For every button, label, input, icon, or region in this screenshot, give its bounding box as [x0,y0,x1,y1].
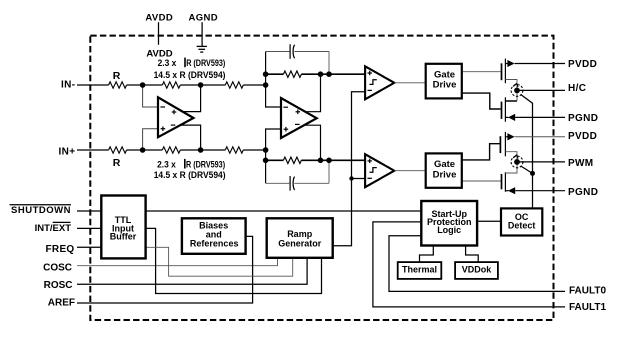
wire PWM sensor to OC line [521,166,533,173]
resistor 2.3xR feedback upper [162,82,180,88]
svg-text:AVDD: AVDD [145,13,173,24]
svg-text:PVDD: PVDD [568,131,597,142]
svg-text:PGND: PGND [568,187,598,198]
wire INT/EXT input [77,227,101,229]
wire INT/EXT routed to ramp generator [146,228,321,293]
capacitor C1 (upper) [290,44,295,59]
wire H/C sensor to OC detect [521,95,533,209]
wire PWM pin [517,161,565,163]
wire gate drive 2 lower gate lead [462,180,501,182]
resistor R (IN-) [109,82,127,88]
diode/arrow PVDD lower [505,133,514,140]
block OC Detect [501,208,542,235]
wire H/C pin [517,89,565,91]
wire amp1 non-inverting input lead [143,129,158,150]
svg-text:14.5 x R (DRV594): 14.5 x R (DRV594) [154,170,226,181]
svg-text:Detect: Detect [508,220,536,230]
wire amp1 inverting input lead [143,85,158,107]
wire gate drive 1 lower gate lead [462,93,501,109]
wire PGND upper pin [515,116,565,118]
resistor interstage upper [225,82,243,88]
block Thermal [398,262,442,279]
wire amp1 upper output to rail [182,85,201,112]
wire Q1 source to sense node [505,80,517,91]
wire ROSC net [77,258,307,285]
wire PVDD lower pin [515,136,565,138]
svg-text:VDDok: VDDok [462,265,492,275]
svg-text:IN-: IN- [61,80,76,91]
pin label SHUTDOWN (active low) [10,205,72,216]
comparator U4 (lower, with hysteresis) [365,154,394,187]
op-amp U2 polarity signs [283,107,300,131]
comparator U4 signs and hysteresis glyph [368,159,377,179]
transistor Q3 (high-side, PWM) [500,132,505,156]
svg-text:PGND: PGND [568,113,598,124]
wire PVDD upper pin [515,63,565,65]
capacitor C2 (lower) [290,176,295,191]
svg-text:FAULT1: FAULT1 [569,302,606,313]
svg-text:FAULT0: FAULT0 [569,285,606,296]
wire gate drive 1 upper gate lead [462,71,501,73]
resistor interstage lower [225,147,243,153]
wire Q2 drain to sense node [505,100,517,102]
wire gate drive 2 upper gate lead [462,144,500,160]
op-amp U1 input/output polarity signs [160,107,176,131]
wire Start-Up to Thermal [420,246,434,263]
wire amp2 upper output to rail [305,74,321,112]
svg-text:R (DRV593): R (DRV593) [186,58,225,69]
junction dots stage1/stage2 rails [140,71,332,163]
svg-text:AGND: AGND [189,13,219,24]
node PWM (sense dot) [514,159,520,165]
wire AVDD pin [158,22,160,45]
wire Start-Up to FAULT0 [389,236,565,292]
svg-text:Logic: Logic [437,225,461,235]
artifact bar upper [184,58,186,68]
svg-text:Drive: Drive [433,80,457,91]
svg-text:Ramp: Ramp [287,229,313,239]
current sensor (PWM) dashed circle [511,156,523,168]
wire AGND pin [201,22,203,46]
wire Start-Up to FAULT1 [373,222,565,307]
svg-text:INT/EXT: INT/EXT [35,223,72,234]
wire COSC net [77,258,278,266]
wire comparator1 output [394,82,426,84]
wire Q4 drain to sense node [505,162,517,173]
current sensor (PWM) arrow tick [513,155,518,159]
resistor stage2 feedback lower [283,157,301,163]
current sensor (H/C) arrow tick [513,84,518,88]
pin AGND (top) [189,13,219,24]
svg-text:H/C: H/C [568,83,586,94]
resistor 2.3xR feedback lower [162,147,180,153]
wire ramp signal to comparators [333,92,365,246]
svg-text:14.5 x R (DRV594): 14.5 x R (DRV594) [154,70,226,81]
block Gate Drive 1 [426,64,462,99]
transistor Q4 (low-side, PWM) [502,172,506,192]
resistor R (IN+) [109,147,127,153]
wire FREQ input [77,246,101,248]
wire Start-Up to OC Detect [477,220,501,222]
wire stage2 lower rail to comparator 2 [266,159,366,161]
transistor Q2 (low-side, H/C) [502,97,506,121]
svg-text:References: References [190,239,239,249]
svg-text:Generator: Generator [278,238,322,248]
junction ramp to comparator 2 [349,176,353,180]
capacitor feedback loop lower wire [266,160,329,183]
svg-text:Drive: Drive [433,169,457,180]
svg-text:Buffer: Buffer [110,232,137,242]
svg-text:PVDD: PVDD [568,59,597,70]
block Start-Up Protection Logic [421,201,477,246]
svg-text:FREQ: FREQ [46,244,75,255]
wire IN+ net (y=150) [77,149,266,151]
block VDDok [455,262,498,279]
comparator U3 (upper, with hysteresis) [365,66,394,99]
wire Q3 source to sense node [505,152,517,162]
wire stage2 upper rail to comparator 1 [266,73,366,75]
svg-text:Thermal: Thermal [402,265,437,275]
wire stage2 input node verticals (upper) [266,52,281,108]
block TTL Input Buffer [101,196,145,259]
resistor stage2 feedback upper [283,71,301,77]
wire PGND lower pin [515,190,565,192]
svg-text:R (DRV593): R (DRV593) [186,159,225,170]
svg-text:2.3 x: 2.3 x [157,159,176,170]
block Ramp Generator [267,218,333,257]
diode/arrow PGND upper [505,114,515,121]
svg-text:R: R [113,70,121,82]
wire FREQ routed to ramp generator [146,247,292,276]
svg-text:ROSC: ROSC [44,280,73,291]
pin label INT/EXT [35,222,72,234]
wire AREF net [77,236,253,303]
wire SHUTDOWN net to Start-Up logic [77,210,421,212]
svg-text:AREF: AREF [48,298,75,309]
wire Start-Up to VDDok [466,246,479,263]
svg-text:IN+: IN+ [58,146,75,157]
transistor Q1 (high-side, H/C) [502,59,506,84]
node H/C (sense dot) [514,88,520,94]
dashed device boundary [90,36,553,320]
svg-text:R: R [113,157,121,169]
wire stage2 input node verticals (lower) [266,129,281,183]
wire amp1 lower output to rail [180,125,201,150]
artifact bar lower [184,159,186,169]
block Biases and References [182,218,246,254]
wire IN- net (y=85) [77,84,266,86]
wire comparator2 output [394,170,426,172]
op-amp U1 (input differential amplifier) [158,97,194,137]
pin AVDD (top) [145,13,173,24]
block Gate Drive 2 [426,153,462,187]
wire amp2 lower output to rail [304,125,321,160]
comparator U3 signs and hysteresis glyph [368,71,377,91]
capacitor feedback loop upper wire [266,52,329,75]
current sensor (H/C) dashed circle [511,85,523,97]
op-amp U2 (second stage) [281,98,317,138]
diode/arrow PVDD upper [505,60,514,67]
svg-text:2.3 x: 2.3 x [158,58,177,69]
diode/arrow PGND lower [505,187,515,194]
svg-text:SHUTDOWN: SHUTDOWN [11,205,71,216]
junction OC sense line [530,171,535,176]
svg-text:PWM: PWM [568,158,594,169]
ground symbol AGND [197,46,207,52]
svg-text:COSC: COSC [43,262,72,273]
